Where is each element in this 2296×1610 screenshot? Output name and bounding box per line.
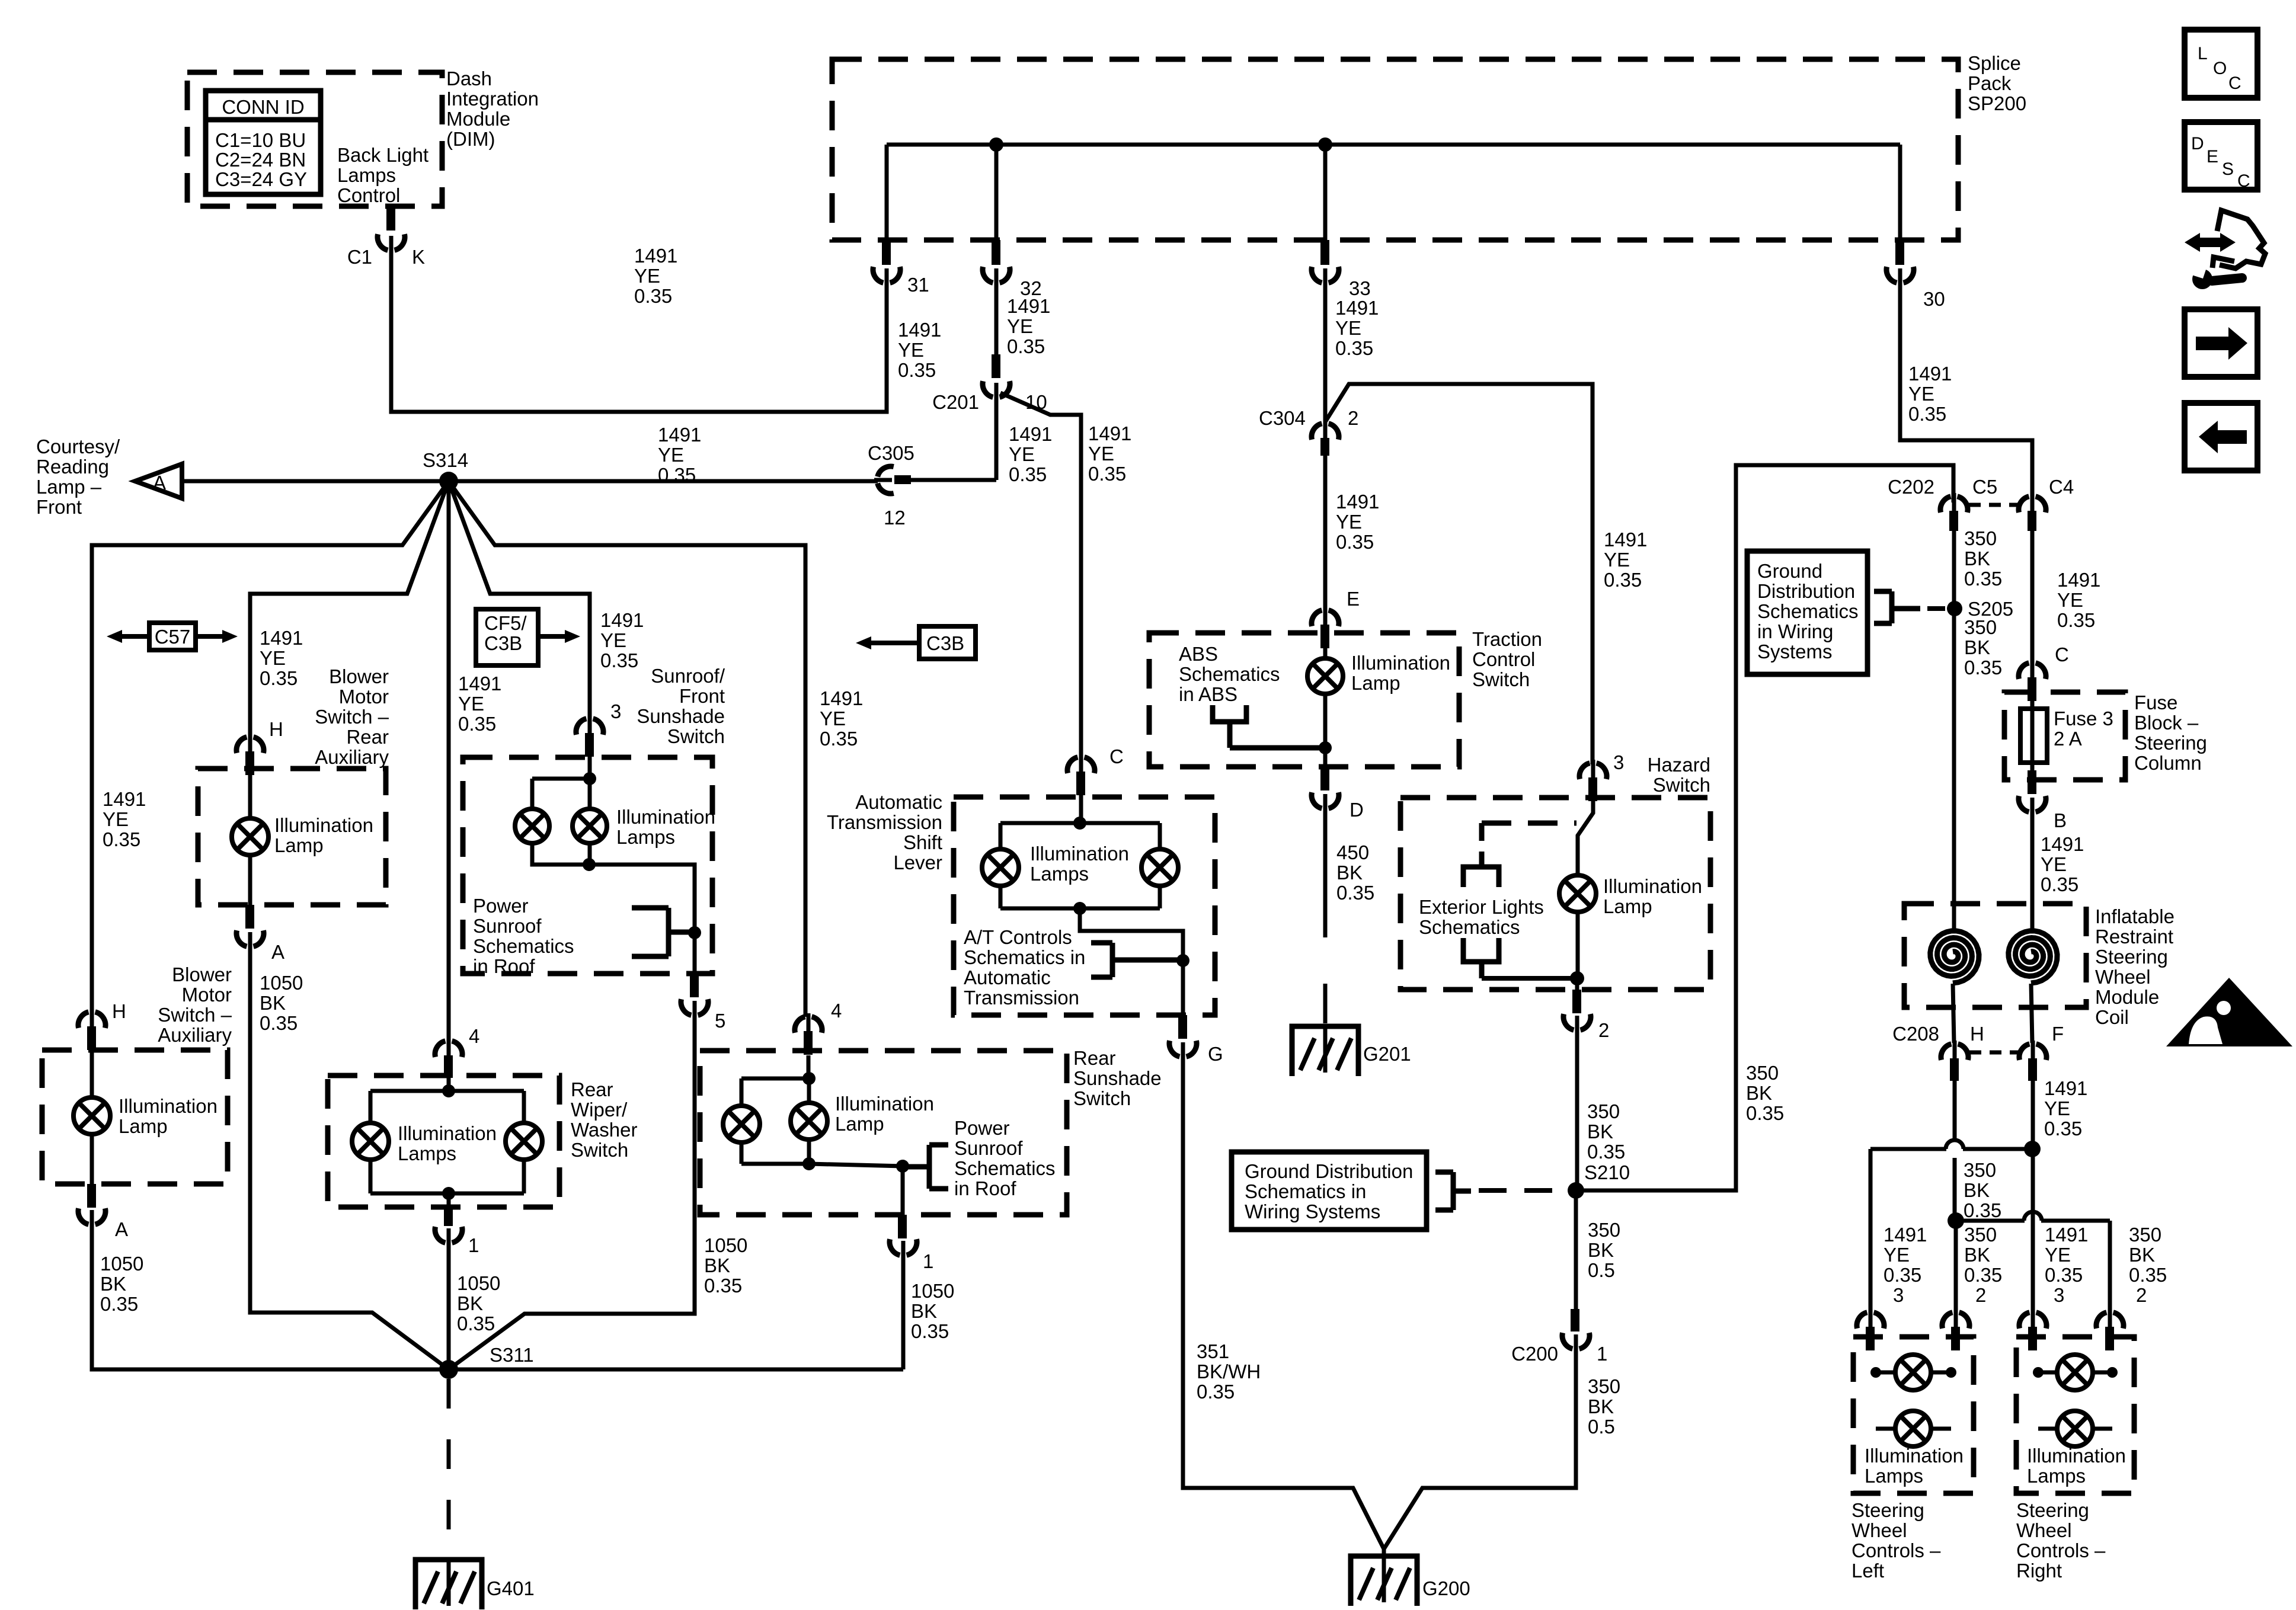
svg-text:0.35: 0.35 bbox=[1336, 531, 1374, 553]
reference bracket: power sunroof schematics bbox=[666, 908, 671, 956]
svg-text:YE: YE bbox=[2045, 1244, 2071, 1266]
svg-text:33: 33 bbox=[1349, 277, 1371, 299]
svg-text:Reading: Reading bbox=[36, 456, 109, 478]
lamp row 1 right controls bbox=[2034, 1371, 2116, 1375]
svg-text:2 A: 2 A bbox=[2054, 728, 2082, 750]
svg-text:Control: Control bbox=[1472, 648, 1535, 670]
wire pin H to lamp bbox=[248, 775, 252, 818]
sunroof/front sunshade switch dashed box bbox=[463, 757, 712, 974]
wire rear sunshade lamp loop bbox=[741, 1077, 809, 1081]
svg-text:0.35: 0.35 bbox=[2057, 609, 2095, 631]
svg-text:350: 350 bbox=[1964, 616, 1997, 638]
connector pin 1 of rear sunshade switch bbox=[898, 1215, 907, 1238]
wire C201 down to C305 pin 12 bbox=[994, 392, 999, 480]
connector C of fuse block bbox=[2019, 663, 2029, 679]
junction dot on F wire bbox=[2024, 1141, 2041, 1157]
svg-text:350: 350 bbox=[1587, 1100, 1620, 1122]
module: Ground Distribution Schematics in Wiring Systems (left) bbox=[1232, 1152, 1427, 1230]
connector pin 2 of steering wheel controls right bbox=[2096, 1313, 2106, 1329]
connector H of C208 bbox=[1941, 1044, 1951, 1060]
reference bracket: power sunroof schematics in roof bbox=[927, 1145, 932, 1189]
wire lamps to connector G bbox=[1080, 908, 1183, 1015]
icon: DESC box bbox=[2185, 122, 2257, 190]
svg-text:Auxiliary: Auxiliary bbox=[158, 1024, 232, 1046]
lamp: shift lever illumination lamp left bbox=[982, 849, 1019, 886]
svg-text:S210: S210 bbox=[1584, 1161, 1630, 1183]
connector pin A of blower auxiliary bbox=[87, 1184, 96, 1208]
svg-text:C: C bbox=[1109, 745, 1124, 767]
connector pin H of blower auxiliary bbox=[78, 1012, 88, 1028]
svg-text:Back Light: Back Light bbox=[337, 144, 428, 166]
wire pin 3 into box bbox=[588, 757, 592, 779]
wire pin 32 to C201 bbox=[994, 278, 999, 356]
junction dot ABS tap bbox=[1319, 741, 1332, 754]
svg-text:Right: Right bbox=[2016, 1560, 2062, 1582]
svg-text:Lamps: Lamps bbox=[1030, 863, 1089, 885]
connector F of C208 bbox=[2019, 1044, 2029, 1060]
lamp row 1 left controls bbox=[1872, 1371, 1955, 1375]
svg-text:Dash: Dash bbox=[446, 68, 492, 89]
wire lamps bottom to pin 1 bbox=[447, 1193, 451, 1207]
svg-text:1050: 1050 bbox=[457, 1272, 500, 1294]
svg-text:0.35: 0.35 bbox=[1964, 568, 2002, 590]
svg-text:BK: BK bbox=[1964, 1244, 1990, 1266]
lamp: sunroof switch illumination lamp left bbox=[515, 809, 549, 843]
svg-text:0.35: 0.35 bbox=[2045, 1264, 2083, 1286]
junction dot wiper lamps bottom bbox=[442, 1187, 455, 1200]
wire hazard lamp to pin 2 bbox=[1576, 912, 1580, 978]
svg-text:C201: C201 bbox=[932, 391, 979, 413]
svg-text:A: A bbox=[153, 472, 166, 494]
wire lamp to pin A bbox=[90, 1134, 94, 1184]
svg-text:Transmission: Transmission bbox=[827, 811, 942, 833]
component: Steering Wheel Controls - Right dashed box bbox=[2016, 1337, 2134, 1493]
svg-text:Systems: Systems bbox=[1757, 641, 1833, 662]
svg-text:3: 3 bbox=[1613, 751, 1624, 773]
svg-text:(DIM): (DIM) bbox=[446, 128, 495, 150]
connector pin 2 of steering wheel controls left bbox=[1942, 1313, 1952, 1329]
svg-text:0.35: 0.35 bbox=[260, 667, 298, 689]
wire lamps to pin 1 and power sunroof tap bbox=[809, 1164, 903, 1215]
reference bracket: ground distribution to S205 bbox=[1889, 591, 1895, 623]
wire S210 to C200 bbox=[1574, 1190, 1578, 1309]
svg-text:S311: S311 bbox=[490, 1344, 534, 1366]
svg-text:Column: Column bbox=[2134, 752, 2202, 774]
svg-text:Control: Control bbox=[337, 184, 400, 206]
connector C1 pin K of DIM bbox=[386, 206, 395, 231]
svg-text:Shift: Shift bbox=[903, 831, 942, 853]
svg-text:0.35: 0.35 bbox=[1964, 1199, 2001, 1221]
svg-text:350: 350 bbox=[1964, 527, 1997, 549]
svg-text:0.35: 0.35 bbox=[260, 1012, 298, 1034]
svg-text:YE: YE bbox=[1884, 1244, 1910, 1266]
svg-text:Switch –: Switch – bbox=[315, 706, 389, 728]
svg-text:Schematics: Schematics bbox=[954, 1157, 1056, 1179]
svg-text:Steering: Steering bbox=[2016, 1499, 2089, 1521]
svg-text:0.35: 0.35 bbox=[1964, 657, 2002, 678]
svg-text:YE: YE bbox=[600, 629, 626, 651]
svg-text:BK: BK bbox=[911, 1300, 937, 1322]
connector pin 3 of steering wheel controls right bbox=[2019, 1313, 2029, 1329]
svg-text:0.35: 0.35 bbox=[1908, 403, 1946, 425]
lamp: traction control illumination lamp bbox=[1307, 658, 1343, 694]
svg-text:3: 3 bbox=[2054, 1284, 2064, 1306]
wire pin H to lamp bbox=[90, 1050, 94, 1098]
connector reference C3B arrow bbox=[919, 626, 976, 659]
svg-text:Lamps: Lamps bbox=[1865, 1465, 1923, 1487]
svg-text:YE: YE bbox=[658, 444, 684, 466]
svg-text:BK: BK bbox=[1588, 1239, 1614, 1261]
svg-text:3: 3 bbox=[610, 700, 621, 722]
connector C200 pin 1 in-line bbox=[1571, 1309, 1579, 1331]
svg-text:G401: G401 bbox=[487, 1577, 535, 1599]
reference bracket: ground distribution to S210 bbox=[1451, 1172, 1456, 1210]
connector SP200 pin 33 bbox=[1320, 240, 1329, 265]
svg-text:Automatic: Automatic bbox=[855, 791, 942, 813]
svg-text:E: E bbox=[1347, 588, 1360, 610]
svg-text:Illumination: Illumination bbox=[835, 1093, 934, 1115]
svg-text:1491: 1491 bbox=[634, 245, 677, 267]
wire sunroof lamp loop bbox=[532, 777, 590, 781]
svg-text:4: 4 bbox=[469, 1025, 479, 1047]
svg-text:0.35: 0.35 bbox=[1604, 569, 1642, 591]
fuse F3 element bbox=[2030, 689, 2035, 770]
connector pin 1 of rear wiper/washer switch bbox=[444, 1207, 453, 1226]
icon: diagnostic wrench symbol bbox=[2196, 238, 2225, 247]
wire: S314 ray down to rear wiper/washer switch bbox=[447, 481, 451, 1039]
svg-text:YE: YE bbox=[1908, 383, 1934, 405]
svg-text:Illumination: Illumination bbox=[274, 814, 373, 836]
svg-text:A: A bbox=[115, 1218, 128, 1240]
icon: left arrow box bbox=[2185, 403, 2257, 470]
connector reference C57 double arrow bbox=[149, 623, 196, 650]
svg-text:Schematics: Schematics bbox=[1179, 663, 1280, 685]
connector C201 pin 10 bbox=[992, 354, 1000, 378]
svg-text:C5: C5 bbox=[1972, 476, 1997, 498]
svg-text:ABS: ABS bbox=[1179, 643, 1218, 665]
svg-text:Fuse: Fuse bbox=[2134, 692, 2177, 713]
svg-text:0.35: 0.35 bbox=[1964, 1264, 2002, 1286]
svg-text:Schematics: Schematics bbox=[1419, 916, 1520, 938]
svg-text:Lamp: Lamp bbox=[274, 834, 324, 856]
svg-text:0.35: 0.35 bbox=[1197, 1381, 1235, 1403]
svg-text:Splice: Splice bbox=[1968, 52, 2021, 74]
svg-text:Rear: Rear bbox=[571, 1078, 613, 1100]
svg-text:Integration: Integration bbox=[446, 88, 539, 110]
svg-text:Lamp: Lamp bbox=[835, 1113, 884, 1135]
svg-text:Power: Power bbox=[954, 1117, 1010, 1139]
wire connector C into box bbox=[1079, 795, 1083, 823]
svg-text:in Roof: in Roof bbox=[473, 955, 535, 977]
svg-text:350: 350 bbox=[1964, 1224, 1997, 1246]
icon: LOC box bbox=[2185, 30, 2257, 98]
svg-text:Sunroof/: Sunroof/ bbox=[651, 665, 725, 687]
component: Traction Control Switch dashed box bbox=[1149, 633, 1459, 767]
svg-text:CONN ID: CONN ID bbox=[222, 96, 304, 118]
reference bracket: ABS schematics (u-shape) bbox=[1213, 705, 1246, 722]
CONN ID table bbox=[206, 91, 321, 194]
svg-text:Illumination: Illumination bbox=[1030, 843, 1129, 865]
svg-text:0.35: 0.35 bbox=[458, 713, 496, 735]
svg-text:0.35: 0.35 bbox=[2129, 1264, 2167, 1286]
svg-text:YE: YE bbox=[2044, 1097, 2070, 1119]
rear sunshade switch dashed box bbox=[700, 1051, 1067, 1215]
svg-text:0.5: 0.5 bbox=[1588, 1259, 1615, 1281]
wire pin 1 to S311 bbox=[447, 1238, 451, 1369]
svg-text:Lamps: Lamps bbox=[337, 164, 396, 186]
svg-text:Lamp: Lamp bbox=[119, 1115, 168, 1137]
wire F of C208 down to junction bbox=[2031, 1081, 2035, 1149]
svg-text:0.35: 0.35 bbox=[898, 359, 936, 381]
svg-text:Steering: Steering bbox=[2095, 946, 2168, 968]
junction dot power sunroof tap (rear sunshade) bbox=[896, 1160, 909, 1173]
junction dot sunroof lamps bottom bbox=[583, 858, 596, 871]
svg-text:in Roof: in Roof bbox=[954, 1177, 1016, 1199]
wire pin 2 to S210 bbox=[1575, 1025, 1579, 1190]
wire: S314 ray to blower motor switch rear auxiliary bbox=[250, 481, 449, 737]
lamp: hazard switch illumination lamp bbox=[1559, 875, 1596, 912]
node S314 splice bbox=[439, 472, 458, 491]
svg-text:0.35: 0.35 bbox=[704, 1275, 742, 1297]
svg-text:BK: BK bbox=[1588, 1395, 1614, 1417]
svg-text:Rear: Rear bbox=[346, 726, 389, 748]
svg-text:C200: C200 bbox=[1511, 1343, 1558, 1365]
svg-text:Wheel: Wheel bbox=[2016, 1519, 2072, 1541]
wire: S314 ray to blower motor switch auxiliary bbox=[92, 481, 449, 1012]
svg-text:1491: 1491 bbox=[658, 424, 701, 446]
svg-text:0.35: 0.35 bbox=[1335, 337, 1373, 359]
svg-text:A/T Controls: A/T Controls bbox=[964, 926, 1072, 948]
svg-text:Illumination: Illumination bbox=[616, 806, 715, 828]
svg-text:Wheel: Wheel bbox=[1851, 1519, 1907, 1541]
junction dot rear sunshade lamps bottom bbox=[802, 1157, 816, 1170]
svg-text:Steering: Steering bbox=[2134, 732, 2207, 754]
exterior lights partial dashed box bbox=[1482, 821, 1576, 826]
svg-text:BK: BK bbox=[2129, 1244, 2155, 1266]
connector pin 3 of steering wheel controls left bbox=[1857, 1313, 1867, 1329]
svg-text:C1: C1 bbox=[347, 246, 372, 268]
svg-text:0.35: 0.35 bbox=[100, 1293, 138, 1315]
svg-text:C: C bbox=[2228, 73, 2241, 93]
svg-text:YE: YE bbox=[458, 693, 484, 715]
wire: S314 main horizontal to C305 bbox=[182, 479, 878, 484]
reference bracket: A/T controls schematics bbox=[1110, 943, 1115, 977]
wire C4 to fuse block connector C bbox=[2030, 531, 2035, 662]
connector D of traction control switch bbox=[1320, 767, 1329, 790]
svg-text:0.35: 0.35 bbox=[2044, 1118, 2082, 1140]
svg-text:Rear: Rear bbox=[1073, 1047, 1116, 1069]
svg-text:BK: BK bbox=[1964, 548, 1990, 569]
svg-text:1491: 1491 bbox=[1088, 422, 1131, 444]
connector reference CF5/C3B arrow bbox=[476, 609, 538, 665]
svg-text:1491: 1491 bbox=[1604, 529, 1647, 550]
lamp: rear sunshade illumination lamp left bbox=[723, 1106, 760, 1142]
svg-text:1491: 1491 bbox=[600, 609, 644, 631]
svg-text:Sunroof: Sunroof bbox=[473, 915, 542, 937]
svg-text:Sunroof: Sunroof bbox=[954, 1137, 1023, 1159]
junction dot shift lever lamps top bbox=[1073, 817, 1086, 830]
svg-text:Illumination: Illumination bbox=[1865, 1445, 1964, 1467]
svg-text:351: 351 bbox=[1197, 1340, 1229, 1362]
svg-text:Illumination: Illumination bbox=[398, 1122, 497, 1144]
wire 1491 YE from DIM C1-K to SP200 pin 31 bbox=[391, 245, 887, 412]
svg-text:D: D bbox=[1350, 799, 1364, 821]
switch lever of hazard switch bbox=[1578, 801, 1593, 875]
svg-text:O: O bbox=[2213, 59, 2227, 78]
node S205 splice bbox=[1947, 601, 1962, 616]
svg-text:Front: Front bbox=[679, 685, 725, 707]
svg-text:1: 1 bbox=[1597, 1343, 1607, 1365]
module: Inflatable Restraint Steering Wheel Module Coil dashed box bbox=[1904, 904, 2086, 1007]
svg-text:1491: 1491 bbox=[2057, 569, 2100, 591]
svg-text:BK: BK bbox=[457, 1292, 483, 1314]
svg-text:Traction: Traction bbox=[1472, 628, 1542, 650]
svg-text:350: 350 bbox=[1964, 1159, 1996, 1181]
connector B of fuse block bbox=[2028, 770, 2036, 794]
connector C305 pin 12 in-line bbox=[878, 466, 894, 476]
svg-text:Illumination: Illumination bbox=[1351, 652, 1450, 674]
wire: S314 ray to sunroof/front sunshade switch bbox=[449, 481, 590, 719]
svg-text:YE: YE bbox=[103, 808, 129, 830]
node S311 splice bbox=[439, 1360, 458, 1379]
connector C of shift lever bbox=[1067, 757, 1077, 773]
svg-text:YE: YE bbox=[1007, 315, 1033, 337]
svg-text:4: 4 bbox=[831, 1000, 842, 1022]
svg-text:YE: YE bbox=[2057, 589, 2083, 611]
connector SP200 pin 31 bbox=[882, 240, 891, 265]
wire pin 5 to S311 bbox=[449, 1010, 695, 1369]
svg-text:Switch –: Switch – bbox=[158, 1004, 232, 1026]
svg-text:350: 350 bbox=[1588, 1219, 1620, 1241]
junction dot A/T controls tap bbox=[1176, 954, 1189, 967]
ground G200 bbox=[1351, 1556, 1417, 1606]
lamp: sunroof switch illumination lamp right bbox=[573, 809, 607, 843]
svg-text:1491: 1491 bbox=[898, 319, 941, 341]
svg-text:C: C bbox=[2055, 644, 2069, 665]
svg-text:Front: Front bbox=[36, 496, 82, 518]
svg-text:Switch: Switch bbox=[571, 1139, 628, 1161]
svg-text:L: L bbox=[2198, 44, 2208, 63]
svg-text:Steering: Steering bbox=[1851, 1499, 1924, 1521]
svg-text:YE: YE bbox=[2041, 853, 2067, 875]
svg-text:12: 12 bbox=[884, 507, 906, 529]
svg-text:G201: G201 bbox=[1363, 1043, 1411, 1065]
svg-text:0.35: 0.35 bbox=[911, 1320, 949, 1342]
wire wiper lamp loop bbox=[370, 1089, 524, 1093]
svg-text:H: H bbox=[1970, 1023, 1984, 1045]
svg-text:Wiring Systems: Wiring Systems bbox=[1245, 1201, 1380, 1222]
connector pin 5 of sunroof switch bbox=[690, 974, 699, 997]
ground G201 bbox=[1292, 1026, 1358, 1076]
svg-text:Switch: Switch bbox=[1472, 668, 1530, 690]
connector SP200 pin 32 bbox=[992, 240, 1000, 265]
svg-text:0.35: 0.35 bbox=[103, 828, 140, 850]
svg-text:YE: YE bbox=[1335, 317, 1361, 339]
svg-text:YE: YE bbox=[260, 647, 286, 669]
svg-text:0.5: 0.5 bbox=[1588, 1416, 1615, 1438]
junction on bus at pin 32 bbox=[989, 137, 1003, 152]
svg-text:YE: YE bbox=[820, 708, 846, 729]
wire connector E to lamp bbox=[1323, 648, 1328, 658]
svg-text:1491: 1491 bbox=[2044, 1077, 2087, 1099]
svg-text:C305: C305 bbox=[868, 442, 914, 464]
svg-text:Hazard: Hazard bbox=[1648, 754, 1710, 776]
svg-text:1491: 1491 bbox=[2045, 1224, 2088, 1246]
svg-text:K: K bbox=[412, 246, 425, 268]
wire: S314 ray to rear sunshade switch bbox=[449, 481, 805, 1017]
svg-text:H: H bbox=[112, 1000, 126, 1022]
svg-text:30: 30 bbox=[1923, 288, 1945, 310]
svg-text:BK: BK bbox=[1964, 636, 1990, 658]
svg-text:C1=10 BU: C1=10 BU bbox=[215, 129, 306, 151]
svg-text:Lamp: Lamp bbox=[1603, 895, 1652, 917]
connector E of traction control switch bbox=[1312, 610, 1322, 626]
svg-text:0.35: 0.35 bbox=[1884, 1264, 1921, 1286]
warning triangle: airbag caution icon bbox=[2166, 978, 2292, 1046]
svg-text:0.35: 0.35 bbox=[1007, 335, 1045, 357]
svg-text:2: 2 bbox=[1598, 1019, 1609, 1041]
svg-text:Lamps: Lamps bbox=[616, 826, 675, 848]
lamp row 2 left controls bbox=[1876, 1427, 1951, 1431]
wire pin A to S311 horizontal bbox=[92, 1219, 903, 1369]
svg-text:Block –: Block – bbox=[2134, 712, 2199, 734]
svg-text:BK: BK bbox=[1964, 1179, 1990, 1201]
connector pin 2 of hazard switch bbox=[1572, 990, 1581, 1013]
svg-text:Left: Left bbox=[1851, 1560, 1884, 1582]
svg-text:Schematics in: Schematics in bbox=[964, 946, 1085, 968]
wire shift lever lamp loop bbox=[1000, 821, 1160, 825]
wire C304 branch to hazard switch bbox=[1325, 384, 1593, 764]
svg-text:C3=24 GY: C3=24 GY bbox=[215, 168, 307, 190]
svg-text:BK: BK bbox=[1336, 862, 1363, 884]
svg-text:BK: BK bbox=[260, 992, 286, 1014]
svg-text:1491: 1491 bbox=[1884, 1224, 1927, 1246]
wire into ground G200 bbox=[1382, 1549, 1386, 1600]
junction dot wiper lamps top bbox=[442, 1084, 455, 1097]
wire lamp to pin A bbox=[248, 855, 252, 905]
svg-text:in Wiring: in Wiring bbox=[1757, 620, 1833, 642]
svg-text:C304: C304 bbox=[1259, 407, 1306, 429]
svg-text:YE: YE bbox=[898, 339, 924, 361]
wire through left coil bbox=[1952, 904, 1956, 929]
svg-text:0.35: 0.35 bbox=[1088, 463, 1126, 485]
svg-text:1491: 1491 bbox=[1007, 295, 1050, 317]
svg-text:3: 3 bbox=[1893, 1284, 1904, 1306]
svg-text:1491: 1491 bbox=[820, 687, 863, 709]
svg-text:C3B: C3B bbox=[484, 632, 522, 654]
lamp: rear wiper washer illumination lamp right bbox=[506, 1123, 542, 1160]
connector pin 4 of rear sunshade switch bbox=[795, 1017, 805, 1033]
reference bracket: exterior lights top bbox=[1463, 867, 1499, 887]
lamp: blower rear auxiliary illumination lamp bbox=[232, 818, 268, 855]
connector C304 pin 2 in-line bbox=[1312, 424, 1322, 440]
svg-text:Wiper/: Wiper/ bbox=[571, 1099, 628, 1121]
wire through right coil bbox=[2030, 904, 2035, 929]
svg-text:G200: G200 bbox=[1422, 1577, 1470, 1599]
svg-text:S: S bbox=[2222, 159, 2234, 179]
svg-text:1491: 1491 bbox=[2041, 833, 2084, 855]
svg-text:Pack: Pack bbox=[1968, 72, 2012, 94]
svg-text:Switch: Switch bbox=[1073, 1087, 1131, 1109]
svg-text:Illumination: Illumination bbox=[2027, 1445, 2126, 1467]
svg-text:1491: 1491 bbox=[458, 673, 501, 694]
svg-text:Switch: Switch bbox=[667, 725, 725, 747]
svg-text:C4: C4 bbox=[2049, 476, 2074, 498]
svg-text:Washer: Washer bbox=[571, 1119, 637, 1141]
svg-text:D: D bbox=[2191, 134, 2204, 153]
svg-text:YE: YE bbox=[1604, 549, 1630, 571]
junction dot on H wire bbox=[1948, 1212, 1964, 1229]
